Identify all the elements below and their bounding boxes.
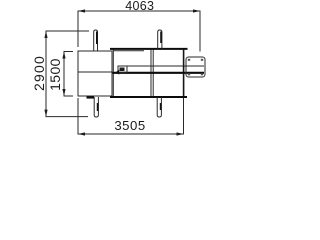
dimension 4063 line: [78, 11, 200, 52]
lead screw top line: [118, 65, 204, 67]
svg-text:1500: 1500: [47, 58, 63, 91]
carriage box: [118, 66, 127, 72]
bed inner top line: [114, 50, 145, 52]
headstock divider: [78, 71, 112, 73]
arrow 2900 bottom: [44, 110, 47, 117]
headstock block outline: [78, 51, 112, 96]
arrow 4063 left: [78, 9, 85, 12]
motor box screw marks: [188, 59, 203, 76]
dimension 2900 line: [46, 31, 89, 117]
top tab 1: [94, 30, 98, 51]
svg-text:4063: 4063: [125, 0, 154, 13]
bed top thick edge: [110, 48, 188, 50]
carriage arrow: [116, 70, 120, 75]
arrow 1500 bottom: [62, 89, 65, 96]
dimension 3505 line: [78, 98, 184, 134]
carriage dark insert: [120, 68, 125, 72]
dimension 1500 line: [64, 52, 73, 97]
arrow 3505 right: [177, 132, 184, 135]
bottom pin 2: [157, 97, 161, 117]
bed right edge: [183, 48, 185, 96]
arrow 3505 left: [78, 132, 85, 135]
arrow 1500 top: [62, 52, 65, 59]
motor box: [186, 57, 205, 77]
bed bottom thick edge: [110, 96, 187, 98]
bottom pin 1: [94, 97, 98, 117]
svg-text:3505: 3505: [114, 118, 145, 133]
lead screw thick line: [113, 72, 205, 74]
bed mid double line: [150, 50, 152, 97]
clamp bar: [87, 96, 95, 99]
svg-text:2900: 2900: [31, 55, 47, 91]
arrow 4063 right: [193, 9, 200, 12]
arrow 2900 top: [44, 31, 47, 38]
bed left edge double line: [112, 48, 114, 96]
top tab 2: [158, 30, 162, 49]
